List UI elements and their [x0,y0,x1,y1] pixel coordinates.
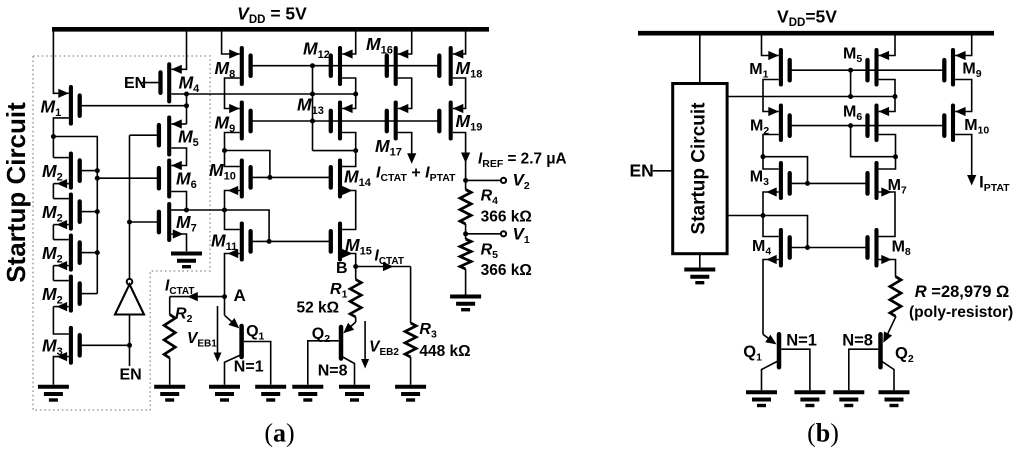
transistor M14 (NMOS) [338,161,342,197]
transistor M6 (startup PMOS) [167,161,171,197]
M15 source lead with arrow down to node B [342,254,356,267]
transistor M1 (startup PMOS) [69,87,73,124]
transistor Q2 (b) PNP N=8 [885,316,896,340]
PMOS gate bias vertical [312,66,314,151]
M11 source lead with arrow down to node A [225,254,240,316]
resistor R3 [410,267,412,324]
transistor M18 (PMOS mirror) [449,48,453,84]
transistor M13 (PMOS cascode, diode) [338,103,342,139]
wire to V2 terminal [466,179,501,181]
M5 (b) source wire from VDD with arrow [879,33,895,55]
transistor M7 (startup NMOS) [167,204,171,240]
Q2 (b) base wire to ground [849,349,879,390]
EN wire to M4 gate [142,82,159,84]
ground at Q2 collector [339,385,370,389]
M5 source lead with arrow [171,123,186,125]
wire M1 drain to M2 source (b) [763,80,779,112]
transistor M4 (enable PMOS) [167,64,171,101]
row1 gate line (b) M1-M9 [790,69,945,71]
M9 (b) source wire from VDD with arrow [955,33,972,55]
M2 gate wire to bus corner [82,293,98,295]
transistor M2 (b) PMOS cascode [779,106,783,141]
wire node A to R2 with ICTAT arrow [170,296,225,298]
M5 gate wire [130,134,157,136]
terminal circle V1 [501,231,506,236]
node dot row3 gate line (b) [805,181,810,186]
wire M5 drain through startup node to M6 source (b) [879,80,895,112]
transistor M19 (PMOS cascode) [449,103,453,139]
M2 gate wire to bus [82,252,98,254]
transistor Q2 (PNP, N=8) [345,322,355,331]
row2 gate line M9-M19 [251,120,440,122]
svg-text:A: A [234,286,246,305]
wire M5 drain to M6 source [171,148,186,166]
transistor M8 (PMOS mirror) [240,48,244,84]
ground at Q1 collector (b) [746,390,777,394]
resistor R4 [465,180,467,189]
M14 source lead with arrow down to M15 drain [342,191,356,230]
row4 gate line (b) M4-M8 [790,247,868,249]
M3 (b) source lead with arrow [763,192,779,216]
svg-text:52 kΩ: 52 kΩ [297,300,340,317]
ground under startup block [684,268,715,272]
M19 source arrow [453,104,464,113]
M1 drain wire down [53,118,68,137]
node dot M6/M7 junction [184,208,189,213]
wire bias vertical to M13/M14 drain junction [313,150,356,152]
M2 top lead [53,280,68,282]
transistor M5 (b) PMOS diode [874,50,878,85]
M1 (b) source wire from VDD with arrow [762,33,779,55]
wire M2/M3 junction to row3 gate line (b) [763,157,808,184]
M10 drain output wire with IPTAT arrow [955,135,972,177]
wire chain segment between M2 devices [52,184,54,199]
VDD power rail (b) [638,31,994,36]
node dot M5 drain on startup line1 (b) [893,94,898,99]
transistor Q1 (b) PNP N=1 [763,334,775,343]
transistor M2 (#2 of diode stack) [69,195,73,229]
transistor M3 (b) NMOS [779,163,783,198]
M1 source arrow [58,89,69,98]
transistor M10 (NMOS) [240,161,244,197]
transistor M12 (PMOS mirror, diode) [338,48,342,84]
wire chain segment between M2 devices [52,266,54,281]
resistor R2 [169,297,171,315]
wire M6 drain down to M7 node [171,192,186,211]
svg-text:R =28,979 Ω: R =28,979 Ω [915,283,1009,301]
svg-text:366 kΩ: 366 kΩ [481,262,532,279]
M2 bottom lead with source arrow [53,183,68,185]
transistor M16 (PMOS mirror) [394,48,398,84]
M10 (b) source arrow [955,107,966,116]
svg-text:Startup Circuit: Startup Circuit [1,102,31,283]
svg-text:N=1: N=1 [786,332,817,350]
M19 drain wire down to output node [453,133,466,181]
resistor R poly (b) [890,277,901,317]
node dot on gate bus [95,209,100,214]
Q2 collector to ground [341,356,355,385]
wire M12 drain to bias line and M13 source [342,78,356,109]
node dot bias vertical row2 [310,119,315,124]
transistor M7 (b) NMOS diode [874,163,878,198]
wire startup block to ground [699,254,701,268]
svg-text:Startup Circuit: Startup Circuit [689,102,710,235]
svg-text:N=8: N=8 [318,363,348,380]
Q1 (b) base wire to ground [781,349,810,390]
startup circuit dotted boundary box (a) [33,56,210,410]
M1 source wire from VDD [53,29,68,93]
wire inverter input from EN [129,315,131,367]
node dot gate bus to M6 wire [95,176,100,181]
node dot M9/M10 junction [222,148,227,153]
node dot bias vertical on M4 line [310,92,315,97]
IREF current arrow [461,153,470,164]
node dot on gate bus [95,168,100,173]
row3 gate line M10-M14 [251,176,331,178]
ground under M7 [171,252,202,256]
wire VDD to startup block [699,33,701,83]
startup circuit block box (b) [673,84,727,254]
transistor M2 (#3 of diode stack) [69,236,73,270]
Q2 base wire to ground [308,341,339,385]
row4 gate line M11-M15 [251,240,331,242]
node dot V1 [463,231,468,236]
M9 source arrow [229,104,240,113]
M14 drain lead up [342,151,356,167]
node dot on gate bus [95,250,100,255]
svg-text:B: B [336,260,348,277]
M3 drain wire from M2 stack [53,307,68,334]
node dot startup line2 / M3 source [761,213,766,218]
ground at Q2 base (b) [833,390,864,394]
M2 gate wire to bus [82,170,98,172]
M6 (b) source arrow [879,107,890,116]
M4 (b) drain lead [763,216,779,237]
node dot row4 gate line [267,239,272,244]
ground under M3 [38,385,69,389]
resistor R1 [355,267,357,280]
wire M7 node to M10/M11 node and M11 gate [187,210,270,241]
wire gate bus to M6 gate [97,177,159,179]
wire M1 drain to first M2 [52,137,54,158]
wire inverter output to M5/M7 gates [129,135,131,279]
wire M9 drain to M10 source (b) [955,80,972,112]
node dot M2/M3 junction (b) [761,154,766,159]
wire M9 drain down to junction [225,133,240,151]
M2 top lead [53,239,68,241]
node dot M13/M14 drain junction [353,148,358,153]
svg-text:EN: EN [120,367,142,384]
node dot on row3 gate line [267,175,272,180]
M17 drain output wire with current arrow [398,133,412,155]
M2 bottom lead with source arrow [53,265,68,267]
terminal circle V2 [501,178,506,183]
node dot row2 gate line (b) [848,123,853,128]
node dot M4 drain [184,92,189,97]
node dot row1 gate / startup (b) [848,68,853,73]
ground under R2 [154,385,185,389]
transistor M3 (startup NMOS) [69,328,73,363]
M2 top lead [53,157,68,159]
node dot on row4 gate line (b) [805,245,810,250]
node dot M1 gate junction [184,103,189,108]
M16 source wire to VDD with arrow [398,29,412,54]
M4 drain lead / PMOS bias line [171,93,355,95]
M10 drain lead up [225,151,240,167]
ground at Q2 base [292,385,323,389]
node dot M7 gate junction [127,220,132,225]
M4 (b) source lead with arrow down to Q1 emitter [763,260,779,335]
M6 source arrow [171,161,182,170]
wire M6 drain down to M7 drain (b) [879,135,896,170]
ground at Q1 collector [209,385,240,389]
M8 source wire from VDD with arrow [222,29,240,54]
svg-text:(poly-resistor): (poly-resistor) [909,304,1013,321]
M17 source arrow [398,104,409,113]
transistor M8 (b) NMOS [874,230,878,266]
wire M2 drain down to M3 junction (b) [763,135,779,170]
M11 drain lead up [225,210,240,230]
wire node B to R3 with ICTAT arrow [356,266,411,268]
inverter (startup enable) [115,284,144,314]
node dot M1 drain / gate bus [51,134,56,139]
EN wire to startup block [653,170,673,172]
M7 source lead with arrow [171,234,186,251]
transistor M2 (#4 of diode stack) [69,277,73,311]
svg-text:VDD = 5V: VDD = 5V [237,4,307,27]
node dot B [353,264,358,269]
VDD power rail (a) [52,27,489,32]
voltage arrow VEB1 [217,306,219,358]
Q1 collector to ground [225,355,242,385]
M2 (b) source arrow [768,107,779,116]
ground at Q1 base (b) [794,390,825,394]
row1 gate line M8-M18 [251,65,440,67]
M7 drain lead [171,209,186,211]
node dot M6/M7 junction (b) [893,154,898,159]
resistor R5 [465,234,467,239]
voltage arrow VEB2 [364,321,366,365]
node dot startup line1 junction (b) [848,94,853,99]
transistor M17 (PMOS cascode) [394,103,398,139]
svg-text:EN: EN [630,161,654,181]
svg-text:448 kΩ: 448 kΩ [419,343,470,360]
M1 gate wire to M4 drain node [82,105,187,107]
startup output line 1 (to M1/M5 gates) [727,96,895,98]
node dot M3 gate / EN [127,343,132,348]
Q2 (b) collector to ground [881,361,895,391]
Q1 (b) collector to ground [762,361,780,391]
transistor M1 (b) PMOS mirror [779,50,783,85]
row3 gate line (b) M3-M7 [790,182,868,184]
ground under R5 [450,295,481,299]
M13 source arrow [342,104,353,113]
transistor M15 (NMOS) [338,224,342,260]
svg-text:(a): (a) [264,418,294,447]
M3 gate wire to EN node [82,344,130,346]
wire row2 gates to M6 drain junction (b) [851,126,896,157]
node dot bias vertical row1 [310,63,315,68]
transistor M4 (b) NMOS [779,230,783,266]
transistor M9 (b) PMOS mirror [951,50,955,85]
M18 source wire to VDD with arrow [453,29,466,54]
M2 gate wire to bus [82,211,98,213]
wire M13 drain down to junction [342,133,356,151]
M7 gate wire [130,221,157,223]
ground at Q2 collector (b) [879,390,910,394]
wire M4 drain down to M5 [186,94,188,124]
node dot M12 drain on bias line [353,92,358,97]
M4 source wire from VDD with arrow [171,29,186,69]
row2 gate line (b) M2-M10 [790,125,945,127]
svg-text:366 kΩ: 366 kΩ [481,209,532,226]
wire gate row1 to startup line1 (b) [850,70,852,96]
wire to V1 terminal [466,233,501,235]
inverter output bubble [127,279,133,285]
transistor M10 (b) PMOS cascode [951,106,955,141]
Q1 base wire to ground [244,342,271,385]
ground at Q1 base [255,385,286,389]
svg-text:N=1: N=1 [234,359,264,376]
svg-text:EN: EN [124,75,146,92]
wire chain segment between M2 devices [52,225,54,240]
M7 (b) source lead with arrow down to M8 drain [879,192,895,237]
svg-text:VDD=5V: VDD=5V [777,7,837,30]
startup output line 2 (to M3/M4 node) [727,216,807,248]
transistor M9 (PMOS cascode) [240,103,244,139]
gate bus top wire [53,137,97,294]
M8 (b) source lead with arrow down to resistor R [879,260,896,277]
transistor M2 (#1 of diode stack) [69,154,73,188]
transistor Q1 (PNP, N=1) [225,315,238,326]
ground under R3 [395,385,426,389]
wire M16 drain to M17 source [398,78,412,109]
node dot V2 [463,178,468,183]
M10 source lead with arrow [225,191,240,211]
M2 bottom lead with source arrow [53,224,68,226]
node dot M10/M11 junction [222,208,227,213]
svg-text:(b): (b) [807,418,839,447]
M2 top lead [53,198,68,200]
M3 source lead with arrow [53,357,68,385]
svg-text:N=8: N=8 [842,332,873,350]
M2 bottom lead with source arrow [53,306,68,308]
wire M8 drain to M9 source [225,78,240,109]
transistor M11 (NMOS) [240,224,244,260]
node dot A [222,294,227,299]
wire M9/M10 junction to M10/M14 gate line [225,151,270,178]
transistor M5 (startup PMOS) [167,118,171,155]
M12 source wire to VDD with arrow [342,29,356,54]
wire M18 drain to M19 source [453,78,466,109]
transistor M6 (b) PMOS diode [874,106,878,141]
